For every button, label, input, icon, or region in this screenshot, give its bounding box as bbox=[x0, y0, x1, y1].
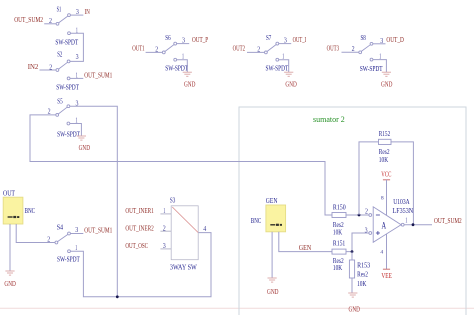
svg-text:OUT1: OUT1 bbox=[132, 44, 145, 52]
svg-text:GND: GND bbox=[285, 80, 296, 88]
svg-text:4: 4 bbox=[380, 250, 383, 256]
wire S7 pin 1 to ground bbox=[279, 60, 289, 72]
junction inverting node bbox=[358, 214, 361, 217]
wire S6 pin 1 to ground bbox=[177, 60, 188, 72]
ground bbox=[284, 72, 293, 76]
ground bbox=[77, 136, 86, 140]
svg-text:OUT_D: OUT_D bbox=[386, 36, 404, 44]
svg-text:R151: R151 bbox=[333, 240, 346, 248]
svg-text:IN: IN bbox=[85, 8, 90, 16]
svg-text:GND: GND bbox=[349, 306, 361, 314]
svg-text:S1: S1 bbox=[57, 6, 62, 14]
svg-text:GND: GND bbox=[4, 280, 16, 288]
svg-text:2: 2 bbox=[163, 225, 167, 232]
switch S5 SW-SPDT bbox=[56, 114, 59, 117]
svg-text:LF353N: LF353N bbox=[393, 207, 414, 215]
wire VCC to op-amp pin 8 bbox=[386, 180, 388, 216]
ground bbox=[183, 72, 192, 76]
svg-text:GND: GND bbox=[381, 80, 392, 88]
svg-text:10K: 10K bbox=[379, 156, 388, 164]
svg-text:S6: S6 bbox=[165, 34, 171, 42]
svg-text:S5: S5 bbox=[57, 97, 63, 105]
connector GEN BNC (yellow) bbox=[266, 205, 286, 232]
op-amp U103A LF353N bbox=[373, 207, 401, 243]
connector OUT BNC (yellow) bbox=[3, 197, 23, 224]
svg-text:S4: S4 bbox=[57, 223, 64, 231]
wire S5 pin 3 right and down to bottom bus bbox=[70, 106, 118, 297]
wire S5 pin 1 to ground bbox=[70, 124, 82, 136]
svg-text:OUT_P: OUT_P bbox=[192, 36, 208, 44]
svg-text:OUT_INER1: OUT_INER1 bbox=[125, 207, 154, 215]
ground bbox=[348, 293, 357, 297]
svg-text:OUT_OSC: OUT_OSC bbox=[125, 242, 148, 250]
svg-text:4: 4 bbox=[203, 226, 207, 233]
junction output node bbox=[412, 223, 415, 226]
svg-text:SW-SPDT: SW-SPDT bbox=[56, 84, 79, 92]
svg-text:GND: GND bbox=[184, 80, 195, 88]
svg-text:1: 1 bbox=[163, 208, 165, 215]
svg-text:3WAY SW: 3WAY SW bbox=[170, 263, 197, 271]
page border line bbox=[0, 307, 474, 309]
svg-text:SW-SPDT: SW-SPDT bbox=[360, 65, 383, 73]
svg-text:OUT_I: OUT_I bbox=[293, 36, 307, 44]
junction non-inverting node bbox=[351, 250, 354, 253]
block outline sumator 2 bbox=[239, 107, 466, 315]
svg-text:OUT_INER2: OUT_INER2 bbox=[125, 224, 154, 232]
svg-text:S3: S3 bbox=[170, 196, 176, 204]
svg-text:VCC: VCC bbox=[381, 171, 391, 179]
wire S7 pin 3 stub bbox=[279, 43, 292, 45]
wire S3 pin 3 stub bbox=[160, 248, 171, 250]
wire S4 pin 3 stub bbox=[70, 233, 83, 235]
svg-text:1: 1 bbox=[405, 218, 407, 225]
wire OUT2 to S7 pin 2 bbox=[247, 51, 265, 53]
svg-text:SW-SPDT: SW-SPDT bbox=[165, 65, 188, 73]
svg-text:10K: 10K bbox=[357, 280, 366, 288]
wire S8 pin 1 to ground bbox=[373, 60, 387, 73]
svg-text:A: A bbox=[382, 222, 387, 232]
svg-text:SW-SPDT: SW-SPDT bbox=[266, 65, 289, 73]
svg-text:3: 3 bbox=[76, 54, 80, 61]
svg-text:S2: S2 bbox=[57, 51, 63, 59]
wire R150 to op-amp pin 2 bbox=[346, 214, 369, 216]
switch S7 SW-SPDT bbox=[265, 51, 268, 54]
wire op-amp output bbox=[404, 224, 432, 226]
svg-text:OUT_SUM2: OUT_SUM2 bbox=[434, 217, 462, 225]
svg-text:OUT: OUT bbox=[3, 190, 16, 198]
wire S1 pin 1 to S2 pin 3 bbox=[70, 33, 83, 61]
svg-text:10K: 10K bbox=[333, 228, 342, 236]
switch S4 SW-SPDT bbox=[55, 241, 58, 244]
switch S1 SW-SPDT bbox=[56, 22, 59, 25]
svg-text:VEE: VEE bbox=[381, 272, 392, 280]
wire OUT3 to S8 pin 2 bbox=[342, 51, 359, 53]
ground bbox=[268, 278, 277, 282]
wire IN2 to S2 pin 2 bbox=[40, 69, 57, 71]
svg-text:GND: GND bbox=[267, 288, 279, 296]
ground bbox=[5, 271, 14, 275]
svg-text:S8: S8 bbox=[361, 34, 367, 42]
svg-text:GEN: GEN bbox=[299, 244, 311, 252]
svg-text:OUT2: OUT2 bbox=[233, 44, 246, 52]
svg-text:8: 8 bbox=[381, 195, 384, 201]
svg-text:2: 2 bbox=[365, 209, 369, 216]
svg-text:IN2: IN2 bbox=[28, 63, 39, 71]
svg-text:SW-SPDT: SW-SPDT bbox=[57, 130, 80, 138]
power VEE bbox=[386, 234, 388, 269]
wire R153 to ground bbox=[351, 278, 353, 293]
S3 lever diagonal bbox=[172, 207, 198, 233]
wire GEN BNC signal to R151 bbox=[279, 232, 332, 252]
switch S6 SW-SPDT bbox=[162, 51, 165, 54]
wire S8 pin 3 stub bbox=[373, 43, 386, 45]
svg-text:Res2: Res2 bbox=[357, 271, 368, 279]
svg-text:OUT3: OUT3 bbox=[327, 44, 340, 52]
wire OUT BNC signal to S4 pin 2 bbox=[16, 224, 55, 243]
svg-text:3: 3 bbox=[163, 243, 167, 250]
svg-text:OUT_SUM1: OUT_SUM1 bbox=[84, 72, 112, 80]
wire OUT1 to S6 pin 2 bbox=[146, 51, 163, 53]
wire S6 pin 3 stub bbox=[177, 43, 190, 45]
svg-text:sumator 2: sumator 2 bbox=[313, 114, 345, 124]
wire S4 pin 1 via bottom bus to S3 pin 4 bbox=[70, 233, 211, 297]
wire R151 to op-amp pin 3 bbox=[346, 233, 369, 252]
wire OUT_SUM2 to S1 pin 2 bbox=[44, 23, 56, 25]
wire GEN BNC shield to ground bbox=[271, 232, 273, 278]
junction on bottom bus bbox=[116, 295, 119, 298]
svg-text:3: 3 bbox=[365, 227, 369, 234]
svg-text:OUT_SUM1: OUT_SUM1 bbox=[84, 226, 112, 234]
svg-text:2: 2 bbox=[47, 237, 51, 244]
wire R152 to inverting node bbox=[359, 142, 379, 215]
switch S8 SW-SPDT bbox=[359, 51, 362, 54]
wire S3 pin 2 stub bbox=[160, 230, 171, 232]
wire S3 pin 1 stub bbox=[160, 213, 171, 215]
svg-text:R150: R150 bbox=[333, 203, 346, 211]
svg-text:BNC: BNC bbox=[251, 217, 262, 225]
wire R152 to output node bbox=[391, 142, 413, 225]
resistor R153 bbox=[351, 252, 353, 260]
svg-text:10K: 10K bbox=[333, 264, 342, 272]
wire S2 pin 1 stub bbox=[70, 77, 83, 79]
switch S2 SW-SPDT bbox=[56, 69, 59, 72]
svg-text:R153: R153 bbox=[357, 262, 370, 270]
svg-text:R152: R152 bbox=[379, 130, 391, 138]
svg-text:S7: S7 bbox=[266, 34, 272, 42]
svg-text:Res2: Res2 bbox=[379, 148, 390, 156]
wire S5 pin 2 long route to R150 bbox=[30, 115, 332, 215]
svg-text:U103A: U103A bbox=[393, 198, 410, 206]
svg-text:GEN: GEN bbox=[266, 197, 278, 205]
svg-text:SW-SPDT: SW-SPDT bbox=[57, 256, 80, 264]
wire OUT BNC shield to ground bbox=[9, 224, 11, 271]
wire S1 pin 3 stub bbox=[70, 14, 83, 16]
svg-text:GND: GND bbox=[79, 144, 90, 152]
ground bbox=[382, 72, 391, 76]
svg-text:BNC: BNC bbox=[25, 207, 36, 215]
svg-text:OUT_SUM2: OUT_SUM2 bbox=[14, 16, 43, 24]
svg-text:SW-SPDT: SW-SPDT bbox=[55, 39, 78, 47]
